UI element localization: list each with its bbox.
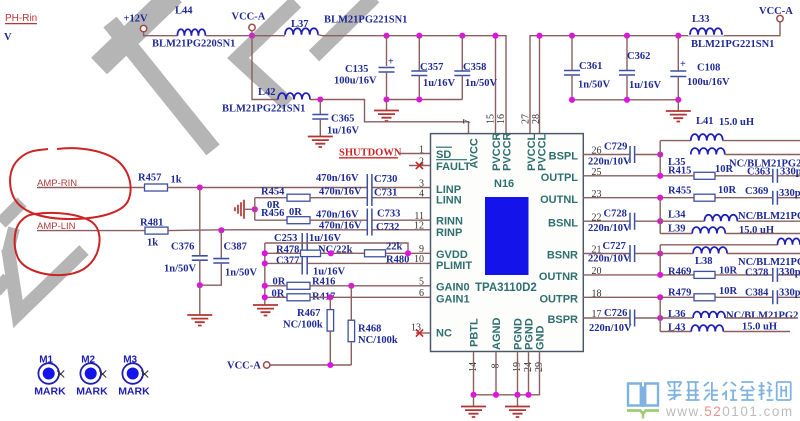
node C362 bottom	[624, 97, 630, 103]
svg-text:TPA3110D2: TPA3110D2	[475, 282, 537, 294]
node L42/C365	[317, 96, 323, 102]
wire OUTPL row	[583, 175, 800, 177]
svg-text:27: 27	[521, 114, 532, 124]
node R467 bottom	[327, 362, 333, 368]
svg-text:C730: C730	[374, 174, 397, 185]
svg-text:L44: L44	[175, 6, 193, 17]
node C361 top	[569, 33, 575, 39]
wire R454 to LINN row	[310, 197, 431, 199]
node GAIN1 to R467	[327, 294, 333, 300]
svg-text:C728: C728	[604, 209, 627, 220]
wire OUTPR row	[583, 296, 800, 298]
wire GVDD row	[265, 252, 431, 254]
wire R457 to LINP row	[168, 187, 431, 189]
svg-text:R467: R467	[297, 308, 320, 319]
svg-text:+12V: +12V	[124, 14, 148, 25]
wire PGND pin19	[517, 352, 519, 395]
svg-text:FAULT: FAULT	[436, 161, 471, 173]
node C376/C387 join	[197, 282, 203, 288]
svg-text:330p: 330p	[779, 188, 800, 199]
node C108 top	[675, 33, 681, 39]
svg-text:470n/16V: 470n/16V	[316, 173, 359, 184]
ground under C365	[308, 137, 333, 148]
svg-text:330p: 330p	[779, 267, 800, 278]
node R457 output	[197, 184, 203, 190]
capacitor C358	[461, 36, 463, 71]
svg-text:1k: 1k	[147, 238, 158, 249]
svg-text:PVCCR: PVCCR	[502, 132, 514, 171]
wire bootstrap vertical group3	[659, 245, 661, 275]
svg-text:1u/16V: 1u/16V	[423, 78, 456, 89]
svg-text:PH-Rin: PH-Rin	[5, 13, 37, 24]
svg-text:10R: 10R	[719, 266, 738, 277]
svg-text:BLM21PG221SN1: BLM21PG221SN1	[691, 39, 774, 50]
ground under C108	[677, 100, 679, 111]
wire +12V to L44	[144, 32, 178, 36]
svg-text:330p: 330p	[779, 288, 800, 299]
svg-text:C362: C362	[627, 51, 650, 62]
wire SD pin1	[398, 153, 431, 155]
ground under pin19	[517, 395, 519, 406]
op-amp/IC N16 TPA3110D2 body	[431, 134, 584, 352]
svg-text:15.0 uH: 15.0 uH	[739, 225, 774, 236]
svg-text:OUTNL: OUTNL	[540, 194, 578, 206]
svg-text:C369: C369	[745, 186, 768, 197]
wire OUTNR row	[583, 274, 800, 276]
wire PVCCL rail segment	[530, 22, 780, 134]
svg-text:www.520101.com: www.520101.com	[665, 404, 794, 419]
node C358 top	[459, 33, 465, 39]
svg-text:LINN: LINN	[436, 195, 462, 207]
wire R456 to RINN row	[310, 219, 431, 221]
svg-text:13: 13	[411, 323, 421, 334]
ground under pin14	[473, 395, 475, 406]
wire OUTNL row	[583, 197, 800, 199]
svg-text:OUTPL: OUTPL	[541, 172, 579, 184]
capacitor C357	[418, 36, 420, 71]
svg-text:15.0 uH: 15.0 uH	[719, 117, 754, 128]
svg-text:C387: C387	[224, 242, 247, 253]
wire GAIN0 row	[310, 285, 431, 287]
svg-text:220n/10V: 220n/10V	[589, 323, 632, 334]
capacitor C376	[199, 188, 201, 256]
node OUTNR	[657, 272, 663, 278]
wire bias vertical	[254, 198, 256, 221]
svg-text:4: 4	[419, 189, 424, 200]
svg-text:C733: C733	[377, 209, 400, 220]
svg-text:7: 7	[462, 119, 473, 124]
wire FAULT pin2 stub	[409, 165, 431, 167]
wire L42 to AVCC corner	[310, 100, 469, 134]
node C357 top	[416, 33, 422, 39]
watermark gray letter R right stroke	[314, 0, 374, 56]
svg-text:1k: 1k	[171, 175, 182, 186]
svg-text:+: +	[680, 59, 686, 70]
svg-text:L33: L33	[692, 14, 710, 25]
svg-text:OUTPR: OUTPR	[540, 294, 579, 306]
wire bootstrap vertical group1	[659, 141, 661, 176]
svg-text:R479: R479	[668, 288, 691, 299]
IC die blue rectangle	[485, 197, 529, 275]
node OUTPL	[657, 173, 663, 179]
svg-text:10: 10	[414, 254, 424, 265]
node BSPR boot	[657, 315, 663, 321]
svg-text:100u/16V: 100u/16V	[687, 77, 730, 88]
node pin28 tap	[536, 33, 542, 39]
svg-text:1u/16V: 1u/16V	[327, 126, 360, 137]
svg-text:16: 16	[496, 114, 507, 124]
node C108 bottom	[675, 97, 681, 103]
svg-text:470n/16V: 470n/16V	[319, 221, 362, 232]
svg-text:C731: C731	[374, 188, 397, 199]
svg-text:AGND: AGND	[491, 318, 503, 350]
svg-text:PVCCL: PVCCL	[537, 133, 549, 171]
svg-text:L38: L38	[695, 256, 713, 267]
svg-text:BSNL: BSNL	[548, 217, 578, 229]
svg-text:C108: C108	[697, 63, 720, 74]
svg-text:VCC-A: VCC-A	[227, 361, 261, 372]
svg-text:C729: C729	[604, 142, 627, 153]
watermark gray letter L upper stroke	[1, 202, 22, 223]
wire VCC-A to pullups	[270, 364, 351, 366]
wire ground rail under C135/C357/C358	[384, 99, 463, 101]
svg-text:10R: 10R	[715, 164, 734, 175]
svg-text:330p: 330p	[780, 167, 800, 178]
watermark gray letter R left strokes	[238, 2, 296, 104]
wire L44 to VCC-A node	[205, 35, 252, 37]
svg-text:MARK: MARK	[76, 386, 108, 398]
svg-text:10R: 10R	[719, 286, 738, 297]
svg-text:1n/50V: 1n/50V	[465, 78, 498, 89]
svg-text:R468: R468	[358, 324, 381, 335]
node pin24 gnd	[525, 392, 531, 398]
ground under C376	[199, 285, 201, 314]
node C135 bottom	[383, 96, 389, 102]
svg-text:10R: 10R	[718, 185, 737, 196]
wire pin 28 drop	[539, 36, 541, 134]
node BSNL boot	[657, 218, 663, 224]
svg-text:L41: L41	[696, 116, 714, 127]
svg-text:R454: R454	[261, 187, 285, 198]
svg-text:PLIMIT: PLIMIT	[436, 260, 472, 272]
node OUTNL	[657, 195, 663, 201]
wire VCC-A to L37	[252, 35, 285, 37]
svg-text:GAIN1: GAIN1	[436, 294, 470, 306]
svg-text:BLM21PG221SN1: BLM21PG221SN1	[222, 104, 305, 115]
wire AGND pin8	[495, 352, 497, 395]
svg-text:220n/10V: 220n/10V	[588, 254, 631, 265]
wire ground rail under C361/C362/C108	[572, 99, 678, 101]
node C361 bottom	[569, 97, 575, 103]
watermark gray letter L checkmark	[8, 249, 84, 314]
svg-text:BSPL: BSPL	[549, 151, 579, 163]
wire NC pin13 stub	[416, 332, 431, 334]
logo chinese text (stroke approximation)	[668, 382, 682, 400]
svg-text:BSNR: BSNR	[547, 250, 578, 262]
svg-text:BSPR: BSPR	[547, 314, 578, 326]
node C357 bottom	[416, 96, 422, 102]
wire GND pin29	[474, 352, 540, 395]
svg-text:1: 1	[419, 144, 424, 155]
node R481 output	[218, 227, 224, 233]
capacitor C365	[319, 100, 321, 115]
node pin14 gnd	[470, 392, 476, 398]
node R416 tap	[262, 283, 268, 289]
capacitor C362	[626, 36, 628, 71]
node BSNR boot	[657, 250, 663, 256]
node R478 out	[328, 250, 334, 256]
svg-text:RINN: RINN	[436, 215, 463, 227]
node C135 top	[383, 33, 389, 39]
svg-text:C384: C384	[745, 288, 769, 299]
wire PLIMIT row	[265, 262, 431, 264]
svg-text:1n/50V: 1n/50V	[578, 80, 611, 91]
svg-text:C732: C732	[376, 222, 399, 233]
signal ground left of R454/R456	[235, 200, 244, 219]
svg-text:470n/16V: 470n/16V	[316, 210, 359, 221]
svg-text:PBTL: PBTL	[469, 318, 481, 347]
node GVDD tap	[262, 250, 268, 256]
inductor top-right 15uH (cut)	[660, 244, 777, 246]
node OUTPR	[657, 294, 663, 300]
svg-text:C377: C377	[276, 255, 299, 266]
svg-text:SHUTDOWN: SHUTDOWN	[339, 148, 402, 159]
annotation red loop around AMP-RIN	[10, 148, 131, 219]
svg-text:R455: R455	[668, 186, 691, 197]
svg-text:VCC-A: VCC-A	[232, 12, 266, 23]
node C362 top	[624, 33, 630, 39]
svg-text:L34: L34	[668, 210, 686, 221]
svg-text:2: 2	[419, 156, 424, 167]
watermark gray letter T crossbar	[99, 0, 174, 66]
wire bootstrap vertical group2	[659, 198, 661, 234]
svg-text:R415: R415	[668, 166, 691, 177]
wire AMP-LIN stub	[37, 230, 145, 232]
svg-text:VCC-A: VCC-A	[759, 6, 793, 17]
svg-text:470n/16V: 470n/16V	[319, 187, 362, 198]
svg-text:R469: R469	[668, 267, 691, 278]
svg-text:220n/10V: 220n/10V	[588, 157, 631, 168]
svg-text:V: V	[4, 32, 12, 43]
wire AMP-RIN stub	[37, 187, 145, 189]
wire PVCCR rail: L37 to pin16 corner	[318, 35, 506, 134]
svg-text:NC/100k: NC/100k	[358, 335, 398, 346]
svg-text:RINP: RINP	[436, 227, 462, 239]
svg-text:12: 12	[414, 221, 424, 232]
svg-text:5: 5	[419, 277, 424, 288]
X no-connect on pin13	[416, 329, 423, 336]
X no-connect on FAULT	[416, 162, 423, 169]
svg-text:NC/BLM21PG2: NC/BLM21PG2	[726, 311, 798, 322]
svg-text:BLM21PG221SN1: BLM21PG221SN1	[324, 15, 407, 26]
ground under bias rail	[253, 305, 278, 316]
node pin8 gnd	[493, 392, 499, 398]
svg-text:1n/50V: 1n/50V	[164, 264, 197, 275]
svg-text:GND: GND	[535, 326, 547, 351]
wire VCC-A down to L42	[252, 36, 278, 100]
svg-text:N16: N16	[494, 178, 514, 190]
annotation red loop around AMP-LIN	[15, 213, 100, 275]
node BSPL boot	[657, 151, 663, 157]
svg-text:1u/16V: 1u/16V	[629, 80, 662, 91]
svg-text:+: +	[388, 57, 394, 68]
svg-text:C727: C727	[603, 241, 626, 252]
wire PBTL pin14 to ground rail	[473, 352, 475, 395]
node R417 tap	[262, 294, 268, 300]
node VCC-A junction	[249, 33, 255, 39]
capacitor C135	[386, 36, 388, 66]
svg-text:220n/10V: 220n/10V	[588, 223, 631, 234]
svg-text:22k: 22k	[386, 242, 403, 253]
svg-text:R457: R457	[138, 173, 161, 184]
svg-text:100u/16V: 100u/16V	[334, 76, 377, 87]
svg-text:C361: C361	[579, 61, 602, 72]
svg-text:C376: C376	[171, 242, 194, 253]
capacitor C361	[571, 36, 573, 71]
svg-text:R456: R456	[261, 208, 284, 219]
svg-text:28: 28	[531, 114, 542, 124]
svg-text:MARK: MARK	[34, 386, 66, 398]
svg-text:C363: C363	[747, 167, 770, 178]
svg-text:BLM21PG220SN1: BLM21PG220SN1	[152, 39, 235, 50]
wire R481 to RINP row	[168, 229, 431, 232]
svg-text:6: 6	[419, 288, 424, 299]
svg-text:NC/100k: NC/100k	[283, 320, 323, 331]
capacitor C387	[220, 230, 222, 258]
wire bootstrap vertical group4	[659, 297, 661, 331]
node GAIN0 to R468	[348, 283, 354, 289]
capacitor C108	[677, 36, 679, 71]
node PLIMIT tap	[262, 260, 268, 266]
node pin19 gnd	[514, 392, 520, 398]
svg-text:1n/50V: 1n/50V	[225, 268, 258, 279]
svg-text:C365: C365	[331, 114, 354, 125]
node bias junction	[252, 206, 258, 212]
svg-text:GAIN0: GAIN0	[436, 282, 470, 294]
node R480 out	[405, 250, 411, 256]
svg-text:NC/22k: NC/22k	[318, 245, 353, 256]
svg-text:MARK: MARK	[118, 386, 150, 398]
wire PGND pin24	[528, 352, 530, 395]
svg-text:15: 15	[486, 114, 497, 124]
node pin15 tap	[492, 33, 498, 39]
wire pin 15 drop	[495, 36, 497, 134]
svg-text:AVCC: AVCC	[469, 138, 481, 168]
svg-text:C135: C135	[345, 64, 368, 75]
svg-text:OUTNR: OUTNR	[539, 271, 578, 283]
svg-text:NC: NC	[436, 328, 452, 340]
svg-text:C378: C378	[745, 268, 768, 279]
wire R478 bypass loop	[265, 243, 408, 253]
svg-text:NC/BLM21PG: NC/BLM21PG	[738, 211, 800, 222]
svg-text:L42: L42	[258, 87, 276, 98]
ground under C135 rail	[386, 100, 388, 111]
watermark gray letter T stem	[110, 22, 213, 150]
wire GAIN1 row	[310, 296, 431, 298]
wire bias rail vertical	[264, 243, 266, 305]
logo book icon	[628, 384, 658, 408]
